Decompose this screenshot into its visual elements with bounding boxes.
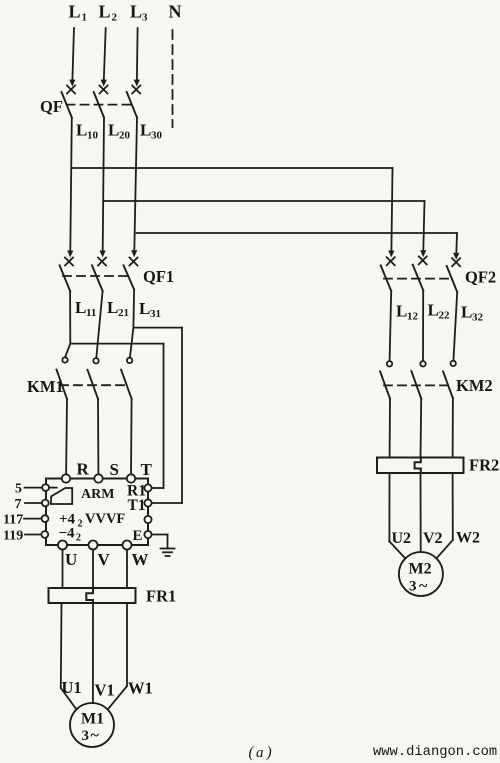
FR2 label <box>469 456 499 475</box>
node W1 label <box>128 679 153 698</box>
svg-text:W2: W2 <box>456 530 480 547</box>
node 5 label <box>15 482 22 497</box>
svg-text:32: 32 <box>472 312 484 324</box>
value +42 label <box>59 512 83 530</box>
svg-text:5: 5 <box>15 482 22 497</box>
contactor KM2 pole 3 <box>443 361 456 399</box>
KM1 linkage dashed <box>60 384 126 386</box>
QF1 arrow pole3 <box>131 250 137 257</box>
svg-text:~: ~ <box>419 578 428 595</box>
wire phase1 QF to QF1 <box>70 118 72 252</box>
svg-text:L: L <box>99 2 111 22</box>
svg-text:31: 31 <box>150 308 161 320</box>
FR1 label <box>146 587 176 606</box>
svg-text:VVVF: VVVF <box>85 511 125 527</box>
svg-text:M1: M1 <box>81 711 104 728</box>
svg-text:−4: −4 <box>59 526 76 542</box>
svg-text:119: 119 <box>3 529 23 544</box>
pin R label <box>77 460 90 479</box>
wire QF2 pole1 to KM2 <box>390 291 392 361</box>
ARM terminal V <box>89 541 98 550</box>
wire FR2 to M2 U2 <box>389 473 405 559</box>
ARM terminal R1 <box>144 484 151 491</box>
QF1 linkage dashed <box>63 275 130 277</box>
svg-text:L: L <box>396 302 407 321</box>
pin T label <box>141 460 153 479</box>
motor M1 text <box>81 711 104 745</box>
wire tap T to T1 terminal <box>133 328 182 503</box>
svg-text:L: L <box>461 303 472 322</box>
svg-text:12: 12 <box>407 311 419 323</box>
node L20 label <box>108 121 131 142</box>
svg-text:2: 2 <box>76 533 81 544</box>
node 7 label <box>15 497 22 512</box>
QF1 label <box>143 267 174 286</box>
wire KM1 pole1 to ARM R <box>65 399 68 474</box>
wire FR2 to M2 V2 <box>420 473 422 552</box>
wire phase3 QF1 to KM1 <box>130 290 134 358</box>
svg-text:): ) <box>266 744 272 761</box>
FR2 heater jog <box>415 458 421 474</box>
QF2 arrow pole1 <box>388 251 394 258</box>
ARM terminal U <box>58 541 67 550</box>
svg-text:L: L <box>140 121 151 140</box>
contactor KM1 pole 2 <box>88 358 99 399</box>
svg-text:3: 3 <box>409 579 417 595</box>
pin E label <box>133 528 143 544</box>
ARM terminal T <box>127 474 135 482</box>
wire KM2 pole1 to FR2 <box>389 399 391 458</box>
svg-text:L: L <box>108 121 119 140</box>
wire KM2 pole3 to FR2 <box>452 398 454 457</box>
KM2 label <box>456 376 493 395</box>
value -42 label <box>59 526 82 544</box>
ARM terminal 5 <box>25 484 49 491</box>
wire QF2 pole3 to KM2 <box>453 292 457 361</box>
svg-text:T1: T1 <box>128 497 146 514</box>
svg-text:R: R <box>77 460 90 479</box>
svg-text:22: 22 <box>439 310 451 322</box>
node L10 label <box>76 121 99 142</box>
node N label <box>169 2 182 22</box>
contactor KM1 pole 3 <box>121 358 132 399</box>
circuit breaker QF2 pole 3 <box>447 258 460 292</box>
svg-text:KM2: KM2 <box>456 376 493 395</box>
wire KM1 pole3 to ARM T <box>130 399 133 475</box>
node L31 label <box>139 299 161 320</box>
node W2 label <box>456 530 480 547</box>
svg-text:11: 11 <box>86 307 96 319</box>
wire phase2 QF1 to KM1 <box>96 291 102 358</box>
node V1 label <box>95 681 115 700</box>
ARM terminal 117 <box>24 515 48 522</box>
FR1 heater jog <box>86 588 93 603</box>
svg-text:10: 10 <box>87 130 99 142</box>
svg-text:21: 21 <box>118 307 129 319</box>
QF2 arrow pole3 <box>453 253 459 260</box>
wire W to FR1 <box>126 550 128 589</box>
svg-text:L: L <box>76 121 87 140</box>
ARM terminal 119 <box>25 531 48 538</box>
ARM internal chopper symbol <box>51 488 72 504</box>
svg-text:T: T <box>141 460 153 479</box>
caption (a) <box>249 744 272 761</box>
svg-text:U: U <box>65 550 77 569</box>
circuit breaker QF2 pole 1 <box>381 257 395 291</box>
svg-text:E: E <box>133 528 143 544</box>
svg-text:U2: U2 <box>392 530 412 547</box>
ARM terminal spare <box>144 516 151 523</box>
motor M2 text <box>409 561 432 595</box>
wire N dashed <box>172 30 174 127</box>
KM2 linkage dashed <box>384 384 449 386</box>
wire phase1 QF1 to KM1 <box>65 291 70 357</box>
circuit breaker QF pole 3 <box>127 86 141 118</box>
svg-text:V2: V2 <box>423 530 443 547</box>
svg-text:3: 3 <box>142 12 148 24</box>
KM1 label <box>27 377 64 396</box>
QF2 label <box>465 268 496 287</box>
svg-text:S: S <box>110 460 119 479</box>
QF linkage dashed <box>67 104 132 106</box>
pin T1 label <box>128 497 146 514</box>
thermal relay FR1 box <box>49 588 136 603</box>
wire KM2 pole2 to FR2 <box>420 399 423 458</box>
svg-text:FR1: FR1 <box>146 587 176 606</box>
node L12 label <box>396 302 419 323</box>
inverter ARM box <box>46 479 148 546</box>
QF label <box>40 97 63 116</box>
wire L2 incoming with arrow <box>101 28 107 87</box>
svg-text:U1: U1 <box>62 678 82 697</box>
VVVF label <box>85 511 125 527</box>
svg-text:V1: V1 <box>95 681 115 700</box>
pin S label <box>110 460 119 479</box>
svg-text:FR2: FR2 <box>469 456 499 475</box>
wire U to FR1 <box>62 550 64 589</box>
svg-text:117: 117 <box>3 513 23 528</box>
svg-text:2: 2 <box>78 519 83 530</box>
svg-text:(: ( <box>249 744 255 761</box>
svg-text:ARM: ARM <box>81 487 114 502</box>
svg-text:7: 7 <box>15 497 22 512</box>
wire L3 incoming with arrow <box>134 28 140 87</box>
wire tap R to R1 terminal <box>70 344 163 488</box>
QF1 arrow pole2 <box>100 251 106 258</box>
motor M2 circle <box>399 552 443 596</box>
wire FR1 to M1 U1 <box>61 603 77 710</box>
svg-text:2: 2 <box>112 12 118 24</box>
node V2 label <box>423 530 443 547</box>
svg-text:1: 1 <box>82 12 88 24</box>
ARM terminal S <box>94 474 102 482</box>
ARM terminal E <box>144 531 151 538</box>
pin U label <box>65 550 77 569</box>
svg-text:a: a <box>256 745 264 761</box>
node L30 label <box>140 121 163 142</box>
svg-text:www.diangon.com: www.diangon.com <box>373 744 497 760</box>
svg-text:L: L <box>130 2 142 22</box>
node U2 label <box>392 530 412 547</box>
wire FR1 to M1 V1 <box>92 603 94 703</box>
ARM terminal T1 <box>144 499 151 506</box>
node L32 label <box>461 303 484 324</box>
node L22 label <box>428 301 451 322</box>
node 117 label <box>3 513 23 528</box>
ARM label <box>81 487 114 502</box>
svg-text:L: L <box>75 298 86 317</box>
ground <box>161 549 175 557</box>
wire L1 incoming with arrow <box>69 28 75 87</box>
QF1 arrow pole1 <box>67 251 73 258</box>
circuit breaker QF2 pole 2 <box>413 256 427 290</box>
svg-text:20: 20 <box>119 130 131 142</box>
motor M1 circle <box>70 703 114 747</box>
pin V label <box>98 550 111 569</box>
circuit breaker QF pole 2 <box>94 86 108 118</box>
node 119 label <box>3 529 23 544</box>
circuit breaker QF1 pole 1 <box>60 258 73 292</box>
svg-text:L: L <box>139 299 150 318</box>
svg-text:W: W <box>132 550 149 569</box>
QF2 linkage dashed <box>384 278 452 280</box>
wire phase2 QF to QF1 <box>103 118 104 252</box>
circuit breaker QF1 pole 3 <box>124 258 138 290</box>
node L21 label <box>107 298 129 319</box>
svg-text:QF2: QF2 <box>465 268 496 287</box>
circuit breaker QF1 pole 2 <box>92 258 106 292</box>
svg-text:L: L <box>428 301 439 320</box>
svg-text:L: L <box>69 2 81 22</box>
ARM terminal 7 <box>25 500 49 507</box>
svg-text:N: N <box>169 2 182 22</box>
thermal relay FR2 box <box>377 458 464 474</box>
contactor KM1 pole 1 <box>57 357 68 399</box>
svg-text:QF: QF <box>40 97 63 116</box>
node L1 label <box>69 2 88 24</box>
svg-text:L: L <box>107 298 118 317</box>
wire QF2 pole2 to KM2 <box>422 290 424 361</box>
ARM terminal R <box>62 474 70 482</box>
svg-text:30: 30 <box>151 130 163 142</box>
wire E to ground <box>152 535 168 549</box>
wire tap phase3 to QF2 <box>137 233 457 254</box>
wire tap phase2 to QF2 <box>104 201 425 251</box>
pin R1 label <box>127 483 146 500</box>
node L11 label <box>75 298 96 319</box>
wire tap phase1 to QF2 <box>72 168 393 251</box>
wire FR2 to M2 W2 <box>436 473 453 559</box>
svg-text:3: 3 <box>82 728 90 744</box>
node L3 label <box>130 2 148 24</box>
ARM terminal W <box>123 541 132 550</box>
node U1 label <box>62 678 82 697</box>
svg-text:QF1: QF1 <box>143 267 174 286</box>
svg-text:~: ~ <box>91 727 100 744</box>
wire KM1 pole2 to ARM S <box>97 399 99 474</box>
QF2 arrow pole2 <box>420 250 426 257</box>
pin W label <box>132 550 149 569</box>
svg-text:W1: W1 <box>128 679 153 698</box>
wire FR1 to M1 W1 <box>108 603 127 709</box>
svg-text:KM1: KM1 <box>27 377 64 396</box>
node L2 label <box>99 2 118 24</box>
svg-text:M2: M2 <box>409 561 432 578</box>
circuit breaker QF pole 1 (x mark + blade) <box>62 86 76 118</box>
wire V to FR1 <box>92 550 94 589</box>
contactor KM2 pole 1 <box>380 361 392 399</box>
watermark www.diangon.com <box>373 744 497 760</box>
wire phase3 QF to QF1 <box>134 118 137 252</box>
contactor KM2 pole 2 <box>411 361 425 399</box>
svg-text:V: V <box>98 550 111 569</box>
